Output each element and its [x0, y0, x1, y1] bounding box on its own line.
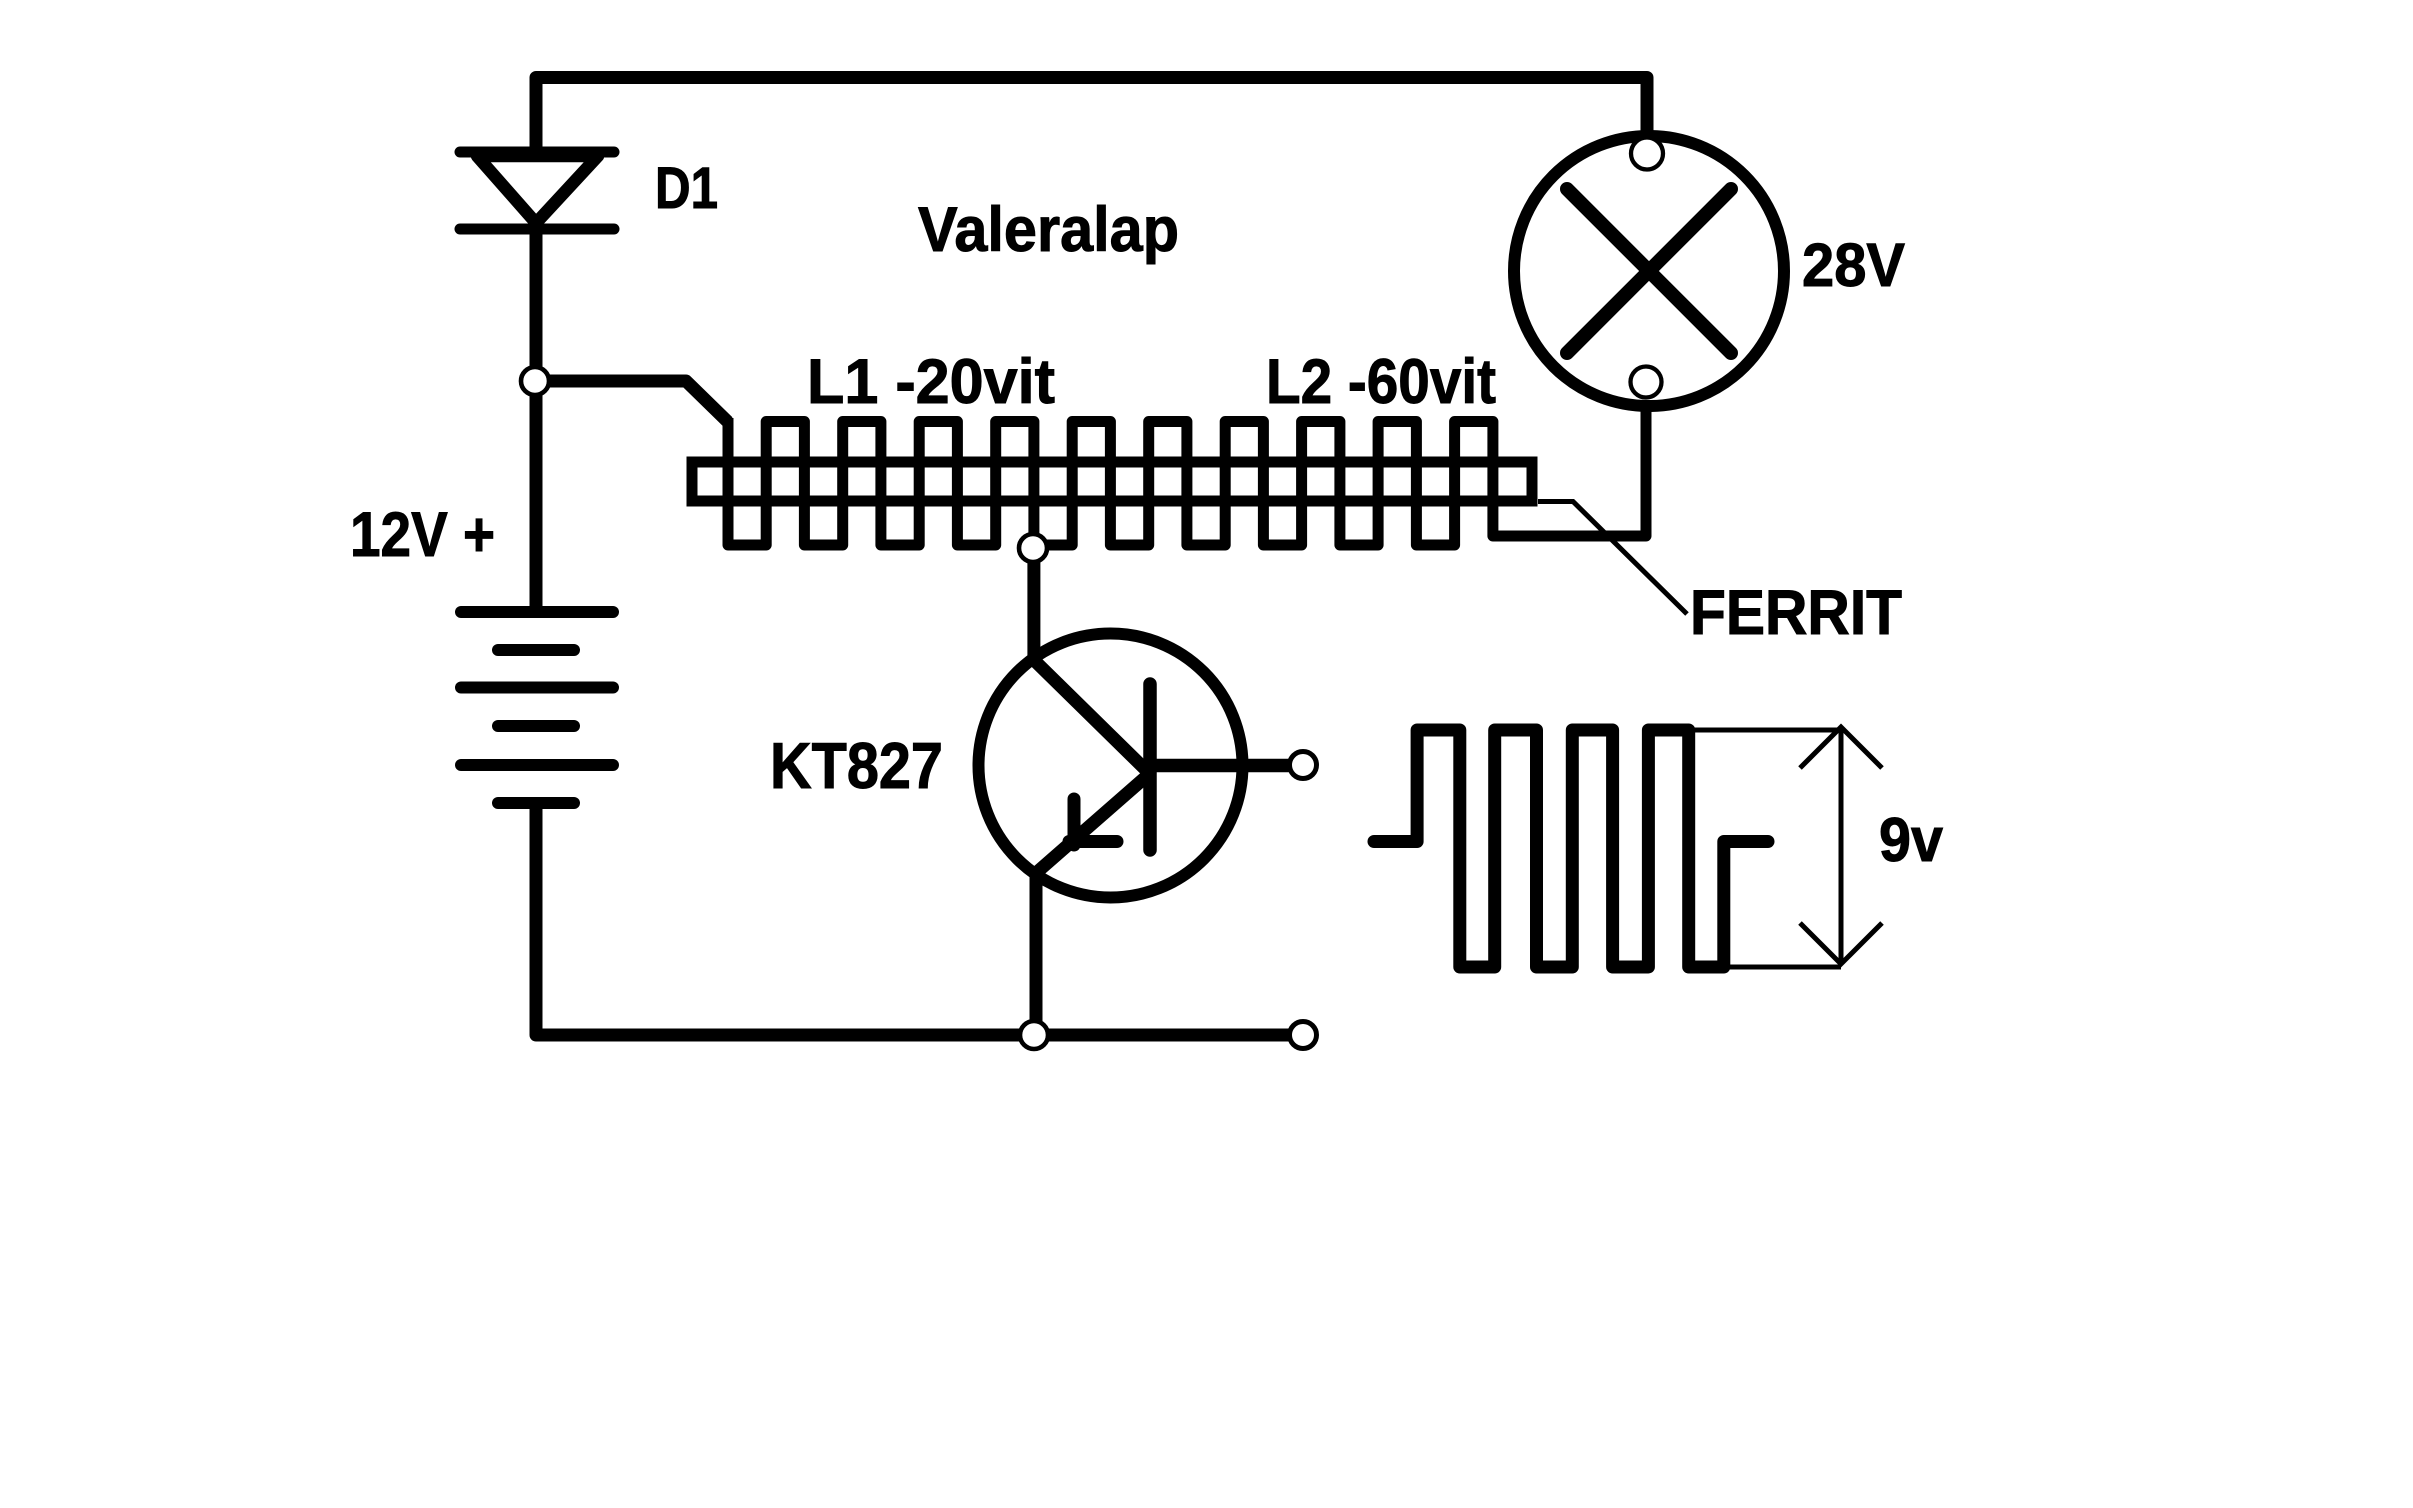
lamp X stroke 2: [1567, 189, 1731, 353]
wire node A to winding lead (45 deg bend): [536, 381, 728, 422]
svg-text:FERRIT: FERRIT: [1690, 578, 1902, 648]
svg-text:KT827: KT827: [770, 729, 943, 802]
diode D1: [460, 152, 614, 229]
wire node A down to battery: [530, 381, 543, 612]
lamp top pin circle: [1631, 138, 1663, 170]
transistor body circle: [979, 634, 1243, 898]
emitter arrowhead barb vertical: [1068, 799, 1081, 845]
transistor Q1 KT827: [979, 634, 1290, 1036]
svg-text:L1 -20vit: L1 -20vit: [807, 347, 1055, 417]
emitter diagonal and wire down to bottom node: [1036, 775, 1148, 1035]
svg-text:L2 -60vit: L2 -60vit: [1266, 347, 1496, 417]
node A junction dot: [521, 367, 549, 395]
bottom terminal circle: [1290, 1022, 1317, 1049]
emitter arrowhead barb horizontal: [1069, 835, 1117, 848]
wire battery minus down and bottom rail to terminal: [536, 803, 1289, 1035]
thin extension top: [1689, 728, 1841, 733]
battery 12V: [461, 612, 613, 803]
node centre tap: [1019, 534, 1047, 562]
square wave signal: [1374, 730, 1768, 967]
svg-text:D1: D1: [655, 156, 718, 221]
dimension arrow 9v: [1800, 727, 1882, 964]
wire diode cathode down to node A: [530, 229, 543, 381]
base bar: [1143, 684, 1157, 850]
anode bar: [460, 147, 614, 158]
wire top rail from diode top to lamp top: [536, 78, 1647, 151]
svg-text:9v: 9v: [1879, 806, 1943, 875]
base lead: [1150, 759, 1289, 773]
triangle: [477, 156, 598, 223]
lamp X stroke 1: [1567, 189, 1731, 353]
ferrite core bar: [692, 462, 1532, 501]
FERRIT leader line: [1538, 502, 1687, 615]
lamp bottom pin circle: [1631, 367, 1662, 398]
cathode bar: [460, 224, 614, 235]
inductor winding L1/L2 square-wave turns: [728, 404, 1646, 545]
lamp circle: [1514, 136, 1784, 406]
bottom node junction dot: [1020, 1021, 1048, 1049]
lamp 28V: [1514, 136, 1784, 406]
svg-text:Valeralap: Valeralap: [918, 195, 1179, 265]
svg-text:12V +: 12V +: [350, 500, 495, 570]
base terminal circle: [1290, 752, 1317, 779]
wire winding centre tap down to transistor collector: [1034, 545, 1148, 772]
thin extension bottom: [1724, 965, 1841, 970]
svg-text:28V: 28V: [1802, 231, 1905, 299]
